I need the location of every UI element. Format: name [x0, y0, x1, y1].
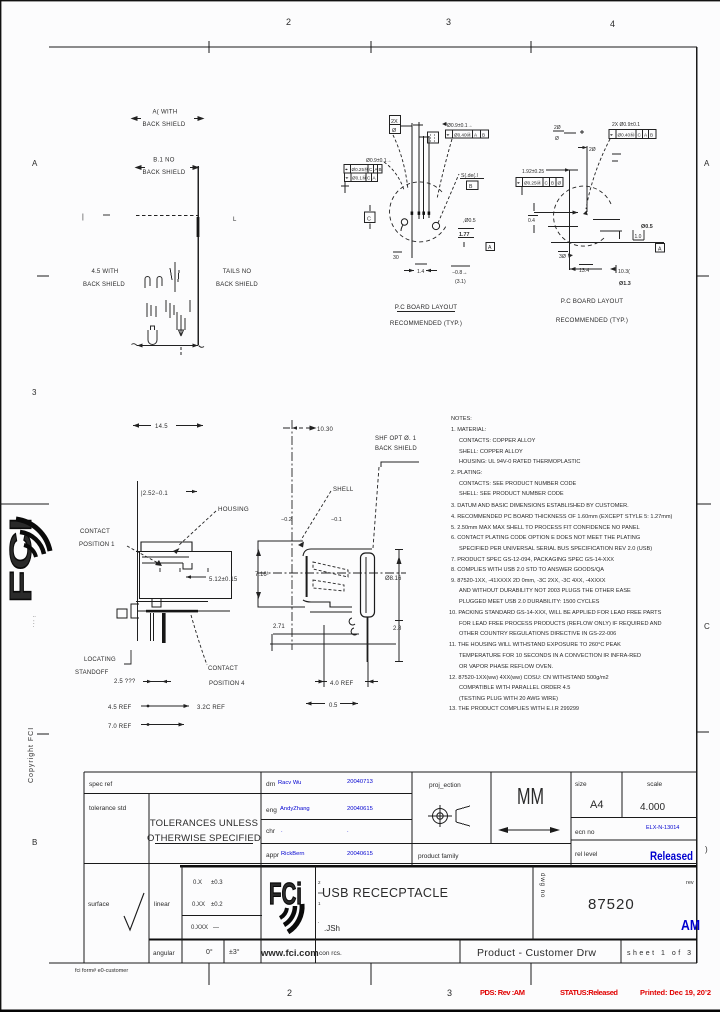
section body top [303, 549, 372, 556]
pattern top ticks [413, 124, 423, 126]
0.4 label [528, 215, 538, 217]
svg-text:3. DATUM AND BASIC DIMENSIONS: 3. DATUM AND BASIC DIMENSIONS ESTABLISHE… [451, 503, 629, 509]
svg-text:STATUS:Released: STATUS:Released [560, 988, 618, 997]
zone tick right 2 [697, 503, 711, 505]
zone tick top 1 [208, 41, 210, 53]
back shield plate [361, 553, 375, 617]
svg-text:BACK SHIELD: BACK SHIELD [143, 122, 186, 128]
left bracket dim 7.16 [258, 541, 305, 607]
svg-text:BACK SHIELD: BACK SHIELD [83, 282, 125, 288]
scan edge top line [0, 0, 720, 1]
svg-text:B.1 NO: B.1 NO [153, 158, 175, 164]
svg-text:3.2C REF: 3.2C REF [197, 705, 225, 711]
title block v-line confirms cell [459, 940, 461, 964]
svg-text:P.C BOARD LAYOUT: P.C BOARD LAYOUT [395, 304, 457, 311]
10.3 bracket [615, 265, 617, 273]
svg-text:⌖: ⌖ [346, 176, 349, 182]
drill pattern vertical lines [411, 123, 413, 258]
title block v-line angular cell [223, 940, 225, 964]
dim 2.52 ext line [137, 481, 139, 641]
svg-text:.JSh: .JSh [324, 924, 340, 933]
locating leader bracket [124, 650, 131, 664]
shielding leader dashed [373, 467, 379, 548]
svg-text:angular: angular [153, 950, 176, 957]
svg-text:Ø8.16: Ø8.16 [385, 576, 402, 582]
svg-text:A: A [704, 159, 710, 168]
contact fingers dashed [313, 562, 348, 577]
dim 0.5 [306, 703, 325, 705]
dim B arrows [136, 166, 145, 170]
svg-text:2.8: 2.8 [393, 626, 402, 632]
svg-text:SHELL: COPPER ALLOY: SHELL: COPPER ALLOY [459, 449, 523, 455]
body flange line [136, 551, 232, 553]
title block outline [84, 772, 697, 963]
title block v-line names column [260, 772, 262, 963]
svg-text:0.XXX: 0.XXX [191, 925, 208, 931]
leader from frame to hole [586, 139, 610, 209]
svg-text:HOUSING: HOUSING [218, 506, 249, 513]
svg-text:B: B [469, 184, 473, 190]
svg-text:..: .. [33, 613, 36, 619]
gdt left frame row1 [344, 165, 382, 174]
svg-text:B: B [32, 838, 37, 847]
svg-text:Ø0.40Ⓜ: Ø0.40Ⓜ [618, 132, 636, 139]
svg-text:20040713: 20040713 [347, 779, 373, 785]
svg-text:4. RECOMMENDED PC BOARD THICK: 4. RECOMMENDED PC BOARD THICKNESS OF 1.6… [451, 514, 673, 520]
svg-text:2.5 ???: 2.5 ??? [114, 679, 136, 685]
svg-text:spec ref: spec ref [89, 781, 112, 788]
svg-text:⌖: ⌖ [610, 133, 613, 139]
sidebar copyright text rotated [28, 727, 35, 783]
svg-text:A: A [658, 247, 662, 253]
svg-text:con rcs.: con rcs. [319, 950, 342, 957]
svg-text:2: 2 [318, 880, 321, 885]
svg-text:2Ø: 2Ø [589, 147, 596, 153]
bottom arrow curls [132, 344, 205, 348]
left gdt frame [516, 178, 563, 187]
svg-text:0.4: 0.4 [528, 218, 535, 224]
svg-text:B: B [551, 181, 554, 186]
svg-text:±0.2: ±0.2 [211, 902, 223, 908]
svg-text:⌖: ⌖ [447, 133, 450, 139]
svg-text:FOR LEAD FREE PROCESS PRODUCTS: FOR LEAD FREE PROCESS PRODUCTS (REFLOW O… [459, 621, 662, 627]
svg-text:www.fci.com: www.fci.com [260, 948, 319, 959]
svg-text:4.5 REF: 4.5 REF [108, 705, 132, 711]
section left wall [306, 556, 308, 597]
svg-text:4: 4 [610, 19, 615, 29]
frame right border [696, 47, 698, 963]
svg-text:size: size [575, 781, 587, 788]
body top cap rect [141, 542, 192, 551]
stacked callout box [390, 116, 401, 134]
svg-text:2Ø: 2Ø [554, 125, 561, 131]
svg-text:4.000: 4.000 [640, 802, 665, 813]
gdt frame [609, 130, 656, 139]
svg-text:2. PLATING:: 2. PLATING: [451, 470, 483, 476]
scan edge left line [0, 0, 1, 1012]
svg-text:7. PRODUCT SPEC GS-12-094, PA: 7. PRODUCT SPEC GS-12-094, PACKAGING SPE… [451, 557, 614, 563]
svg-text:30: 30 [393, 255, 399, 261]
svg-text:MM: MM [517, 783, 544, 809]
svg-text:Ø1.3: Ø1.3 [619, 281, 631, 287]
svg-text:RECOMMENDED (TYP.): RECOMMENDED (TYP.) [556, 317, 628, 324]
svg-text:': ' [318, 921, 319, 926]
svg-text:linear: linear [154, 901, 171, 908]
shielding opt bracket [381, 462, 419, 467]
title block v-line size cell [570, 772, 572, 866]
svg-text:3: 3 [32, 388, 37, 397]
gdt top right frame [446, 130, 489, 138]
long bottom line [551, 242, 664, 244]
svg-text:(TESTING PLUG WITH 20 AWG WIRE: (TESTING PLUG WITH 20 AWG WIRE) [459, 696, 558, 702]
svg-text:product family: product family [418, 853, 459, 860]
svg-text:1. MATERIAL:: 1. MATERIAL: [451, 427, 487, 433]
tail arrow mark [179, 322, 184, 336]
contact1 leader dashed [127, 546, 158, 563]
dim 5.12 arrow [186, 576, 206, 578]
svg-text:C: C [638, 133, 642, 138]
projection symbol circle [428, 805, 470, 827]
svg-text:C: C [545, 181, 549, 186]
svg-text:Ø: Ø [558, 181, 562, 186]
svg-text:CONTACT: CONTACT [208, 666, 238, 672]
svg-text:C: C [704, 622, 710, 631]
contact4 leader dashed [191, 615, 207, 665]
tick mid left [103, 214, 110, 216]
svg-text:2X: 2X [391, 119, 398, 125]
title block h-line above bottom row thick [149, 939, 697, 941]
svg-text:10.30: 10.30 [317, 427, 333, 433]
svg-text:B: B [379, 167, 382, 172]
zone tick top 3 [530, 41, 532, 53]
left bracket ticks [533, 203, 535, 211]
thick shield edge bar [197, 217, 200, 237]
svg-text:Ø0.9±0.1→: Ø0.9±0.1→ [447, 123, 473, 129]
svg-text:A( WITH: A( WITH [152, 110, 177, 116]
svg-text:11. THE HOUSING WILL WITHSTAND: 11. THE HOUSING WILL WITHSTAND EXPOSURE … [449, 642, 621, 648]
datum A box [486, 243, 495, 251]
svg-text:OTHER COUNTRY REGULATIONS DIRE: OTHER COUNTRY REGULATIONS DIRECTIVE IN G… [459, 631, 616, 637]
inner slot lines [142, 557, 192, 569]
title block h-line thick section divider [180, 865, 697, 867]
svg-text:SHF OPT Ø. 1: SHF OPT Ø. 1 [375, 436, 417, 442]
svg-text:CONTACT: CONTACT [80, 529, 110, 535]
svg-text:BACK SHIELD: BACK SHIELD [216, 282, 258, 288]
svg-text:5.12±0.15: 5.12±0.15 [209, 577, 238, 583]
svg-text:2: 2 [286, 17, 291, 27]
standoff tab [152, 598, 161, 607]
svg-text:.: . [347, 828, 349, 834]
svg-text:POSITION 1: POSITION 1 [79, 542, 115, 548]
bottom dim arrowheads [137, 344, 143, 348]
svg-text:Ø0.9±0.1→: Ø0.9±0.1→ [366, 158, 392, 164]
svg-text:dwg no: dwg no [539, 873, 545, 898]
right dim 2.8 [398, 634, 400, 662]
svg-text:(3.1): (3.1) [455, 279, 466, 285]
svg-text:PDS: Rev :AM: PDS: Rev :AM [480, 988, 525, 997]
title block v-line MM cell [490, 772, 492, 844]
title block h-line size row [571, 817, 697, 819]
svg-text:7.0 REF: 7.0 REF [108, 724, 132, 730]
svg-text:C: C [367, 176, 371, 181]
svg-text:.: . [33, 623, 34, 629]
zone tick right 3 [697, 731, 709, 733]
svg-text:Ø0.25Ⓜ: Ø0.25Ⓜ [524, 180, 542, 187]
svg-text:Printed: Dec 19, 20’2: Printed: Dec 19, 20’2 [640, 988, 711, 997]
stacked 2X label [553, 130, 564, 132]
svg-text:Copyright FCI: Copyright FCI [28, 727, 35, 783]
hole left [401, 219, 407, 225]
svg-text:AndyZhang: AndyZhang [280, 806, 310, 812]
gdt left ext line [344, 182, 346, 194]
bottom dim 13.4 [579, 264, 593, 266]
svg-text:⌖: ⌖ [517, 181, 520, 187]
svg-text:0°: 0° [206, 948, 213, 956]
body bottom [139, 598, 232, 600]
svg-text:2X Ø0.9±0.1: 2X Ø0.9±0.1 [612, 122, 640, 128]
svg-text:LOCATING: LOCATING [84, 657, 116, 663]
svg-text:Ø0.40Ⓜ: Ø0.40Ⓜ [454, 132, 472, 139]
svg-text:OR VAPOR PHASE REFLOW OVEN.: OR VAPOR PHASE REFLOW OVEN. [459, 664, 554, 670]
svg-text:tolerance std: tolerance std [89, 805, 127, 812]
svg-text:Ø0.5: Ø0.5 [641, 224, 653, 230]
svg-text:2.71: 2.71 [273, 624, 285, 630]
svg-text:CONTACTS: COPPER ALLOY: CONTACTS: COPPER ALLOY [459, 438, 536, 444]
svg-text:TOLERANCES UNLESS: TOLERANCES UNLESS [150, 818, 258, 829]
gdt top right label [443, 123, 447, 126]
zone tick bottom 2 [370, 963, 372, 985]
svg-text:rel level: rel level [575, 851, 598, 858]
frame top border [49, 46, 697, 48]
svg-text:Ø: Ø [555, 136, 559, 142]
svg-text:±3°: ±3° [229, 948, 240, 956]
pad box dotted [428, 132, 439, 143]
leader dashed from left gdt [384, 162, 404, 190]
svg-text:Ø0.25Ⓜ: Ø0.25Ⓜ [352, 166, 370, 173]
svg-text:1.0: 1.0 [635, 234, 642, 240]
body sides [139, 551, 141, 598]
zone tick bottom 3 [530, 963, 532, 985]
dashed center stub below [180, 347, 182, 357]
svg-text:0.XX: 0.XX [192, 902, 205, 908]
svg-text:13. THE PRODUCT COMPLIES WITH: 13. THE PRODUCT COMPLIES WITH E.I.R 2992… [449, 706, 579, 712]
hole right [432, 222, 439, 229]
svg-text:drn: drn [266, 781, 276, 788]
datum C box left [365, 212, 376, 223]
svg-text:fci form# e0-customer: fci form# e0-customer [75, 968, 128, 974]
svg-text:Released: Released [650, 849, 693, 863]
30 label [393, 251, 402, 253]
30 label [558, 251, 568, 253]
bottom dim line [137, 345, 198, 347]
svg-text:10.3(: 10.3( [618, 269, 630, 275]
scan edge bottom black band [0, 1010, 720, 1012]
HOUSING leader dashed [178, 511, 216, 546]
svg-text:3: 3 [447, 988, 452, 998]
svg-text:14.5: 14.5 [155, 424, 168, 430]
title block h-line spec ref row [84, 793, 412, 795]
dim 14.5 line with arrows [133, 425, 151, 427]
svg-text:RECOMMENDED (TYP.): RECOMMENDED (TYP.) [390, 320, 462, 327]
svg-text:6. CONTACT PLATING CODE OPTIO: 6. CONTACT PLATING CODE OPTION E DOES NO… [451, 535, 640, 541]
datum B box [467, 181, 479, 190]
title block v-line projection cell [411, 772, 413, 866]
svg-text:ecn no: ecn no [575, 829, 595, 836]
bottom right ref dim [451, 265, 470, 267]
zone tick left 3 [37, 733, 49, 735]
svg-text:COMPATIBLE WITH PARALLEL ORDER: COMPATIBLE WITH PARALLEL ORDER 4.5 [459, 685, 570, 691]
svg-text:HOUSING: UL 94V-0 RATED THERMO: HOUSING: UL 94V-0 RATED THERMOPLASTIC [459, 459, 580, 465]
svg-text:B: B [650, 133, 653, 138]
bottom dim 1.4 [415, 263, 427, 265]
title block v-line sheet cell [620, 940, 622, 964]
svg-text:surface: surface [88, 901, 110, 908]
svg-text:SPECIFIED PER UNIVERSAL SERIAL: SPECIFIED PER UNIVERSAL SERIAL BUS SPECI… [459, 546, 652, 552]
svg-text:FCi: FCi [269, 876, 302, 911]
title block h-line chr row [261, 843, 571, 845]
svg-text:0.X: 0.X [193, 880, 202, 886]
left locating bump [131, 604, 139, 618]
title block h-line eng row [261, 819, 412, 821]
dim 4.0 REF [323, 625, 325, 687]
horizontal centerline dash-dot [257, 572, 406, 574]
svg-text:Ø: Ø [392, 128, 397, 134]
svg-text:⌖: ⌖ [345, 167, 348, 173]
svg-text:C: C [367, 217, 371, 223]
svg-text:P.C BOARD LAYOUT: P.C BOARD LAYOUT [561, 298, 623, 305]
svg-text:Product - Customer Drw: Product - Customer Drw [477, 947, 596, 959]
svg-text:4.5 WITH: 4.5 WITH [92, 269, 119, 275]
frame bottom border [49, 962, 697, 964]
second horizontal line [548, 226, 578, 228]
contact pads [411, 212, 414, 215]
svg-text:RickBern: RickBern [281, 851, 305, 857]
zone tick bottom 1 [208, 963, 210, 985]
right dim Ø8.16 [398, 549, 400, 634]
svg-text:NOTES:: NOTES: [451, 416, 472, 422]
big dashed arc [390, 182, 447, 242]
svg-text:A: A [644, 133, 648, 138]
svg-text:Ø0.1Ⓜ: Ø0.1Ⓜ [352, 175, 367, 182]
svg-text:1: 1 [318, 901, 321, 906]
svg-text:−0.8→: −0.8→ [452, 270, 467, 276]
svg-text:A: A [32, 159, 38, 168]
small dashes [612, 153, 621, 155]
dashed circle [554, 186, 611, 246]
svg-text:A: A [488, 245, 492, 251]
svg-text:scale: scale [647, 781, 663, 788]
svg-text:5. 2.50mm MAX MAX SHELL TO PR: 5. 2.50mm MAX MAX SHELL TO PROCESS FIT C… [451, 525, 640, 531]
title block v-line tolerance label [148, 794, 150, 964]
double headed arrow [500, 829, 558, 831]
vertical centerline dash-dot [291, 420, 293, 650]
svg-text:sheet 1 of 3: sheet 1 of 3 [627, 950, 691, 957]
svg-text:STANDOFF: STANDOFF [75, 670, 109, 676]
svg-text:20040615: 20040615 [347, 806, 373, 812]
svg-text:ELX-N-13014: ELX-N-13014 [646, 825, 679, 831]
leader dashed from right gdt [437, 139, 452, 199]
svg-text:10. PACKING STANDARD GS-14-XXX: 10. PACKING STANDARD GS-14-XXX, WILL BE … [449, 610, 662, 616]
svg-text:9. 87520-1XX, -41XXXX 2D 0mm,: 9. 87520-1XX, -41XXXX 2D 0mm, -3C 2XX, -… [451, 578, 606, 584]
shield tail [367, 617, 369, 662]
legs [150, 613, 152, 641]
svg-text:TAILS NO: TAILS NO [223, 269, 252, 275]
svg-text:2: 2 [287, 988, 292, 998]
2.0 label [578, 147, 585, 149]
svg-text:SHELL: SEE PRODUCT NUMBER CODE: SHELL: SEE PRODUCT NUMBER CODE [459, 491, 564, 497]
svg-text:−0.2: −0.2 [281, 517, 292, 523]
right step lines [593, 219, 620, 221]
svg-text:A: A [474, 133, 478, 138]
svg-text:SHELL: SHELL [333, 487, 354, 493]
svg-text:.: . [281, 828, 283, 834]
title block h-line ecn row [571, 839, 697, 841]
center horizontal line with arrow [534, 212, 578, 214]
title block v-line dwg no cell [532, 866, 534, 940]
datum A box [656, 244, 665, 253]
dim 2.52 arrow [186, 491, 197, 493]
svg-text:A4: A4 [590, 799, 603, 811]
svg-text:C: C [369, 167, 373, 172]
leader to shield label [438, 174, 459, 223]
standoff lines [136, 601, 208, 603]
svg-text:7.16¹: 7.16¹ [255, 572, 269, 578]
section bottom steps [303, 600, 352, 607]
cross vertical line [569, 170, 571, 270]
svg-text:8. COMPLIES WITH USB 2.0 STD: 8. COMPLIES WITH USB 2.0 STD TO ANSWER G… [451, 567, 604, 573]
svg-text:eng: eng [266, 807, 277, 814]
zone tick left 1 [37, 275, 49, 277]
svg-text:AM: AM [681, 918, 700, 934]
svg-text:0.5: 0.5 [329, 703, 338, 709]
svg-text:±0.3: ±0.3 [211, 880, 223, 886]
svg-text:20040615: 20040615 [347, 851, 373, 857]
solder hooks [349, 618, 355, 625]
svg-text:|2.52−0.1: |2.52−0.1 [141, 491, 168, 497]
svg-text:proj_ection: proj_ection [429, 782, 461, 789]
svg-text:,Ø0.5: ,Ø0.5 [463, 218, 476, 224]
contact tails sketch [145, 262, 190, 345]
extension vertical line [197, 166, 199, 345]
svg-text:AND WITHOUT DURABILITY NOT 20: AND WITHOUT DURABILITY NOT 2003 PLUGS TH… [459, 588, 631, 594]
title block v-line linear table [181, 866, 183, 963]
svg-text:3: 3 [446, 17, 451, 27]
svg-text:12. 87520-1XX(ww) 4XX(ww) COSU: 12. 87520-1XX(ww) 4XX(ww) COSU: CN WITHS… [449, 675, 609, 681]
body inner ticks [160, 568, 208, 572]
svg-text:BACK SHIELD: BACK SHIELD [143, 170, 186, 176]
svg-text:L: L [233, 217, 237, 223]
svg-text:87520: 87520 [588, 896, 635, 913]
title block v-line scale cell [621, 772, 623, 818]
svg-text:PLUGGED MEET USB 2.0 DURABILIT: PLUGGED MEET USB 2.0 DURABILITY: 1500 CY… [459, 599, 600, 605]
hole centerline vertical [586, 146, 588, 212]
svg-text:BACK SHIELD: BACK SHIELD [375, 446, 417, 452]
zone tick left 2 long [0, 503, 49, 505]
dashed top line of shield [136, 215, 198, 217]
sidebar FCI logo rotated [3, 517, 50, 603]
svg-text:1.92±0.25: 1.92±0.25 [522, 169, 544, 175]
svg-text:chr: chr [266, 828, 276, 835]
svg-text:−0.1: −0.1 [331, 517, 342, 523]
svg-text:Racv Wu: Racv Wu [278, 780, 301, 786]
svg-text:POSITION 4: POSITION 4 [209, 681, 245, 687]
svg-text:): ) [705, 845, 708, 854]
svg-text:rev: rev [686, 880, 694, 886]
svg-text:1.4: 1.4 [417, 269, 424, 275]
svg-text:3Ø: 3Ø [559, 254, 566, 260]
label dwg no rotated [539, 873, 545, 898]
svg-text:TEMPERATURE FOR 10 SECONDS IN: TEMPERATURE FOR 10 SECONDS IN A CONVECTI… [459, 653, 641, 659]
